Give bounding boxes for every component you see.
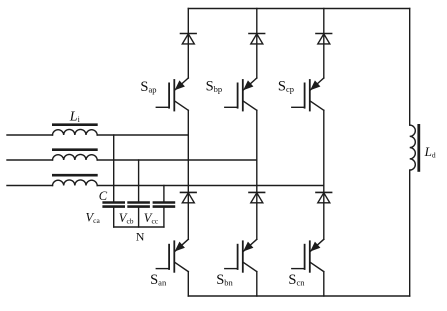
svg-text:C: C	[99, 189, 108, 203]
svg-text:N: N	[136, 230, 145, 244]
